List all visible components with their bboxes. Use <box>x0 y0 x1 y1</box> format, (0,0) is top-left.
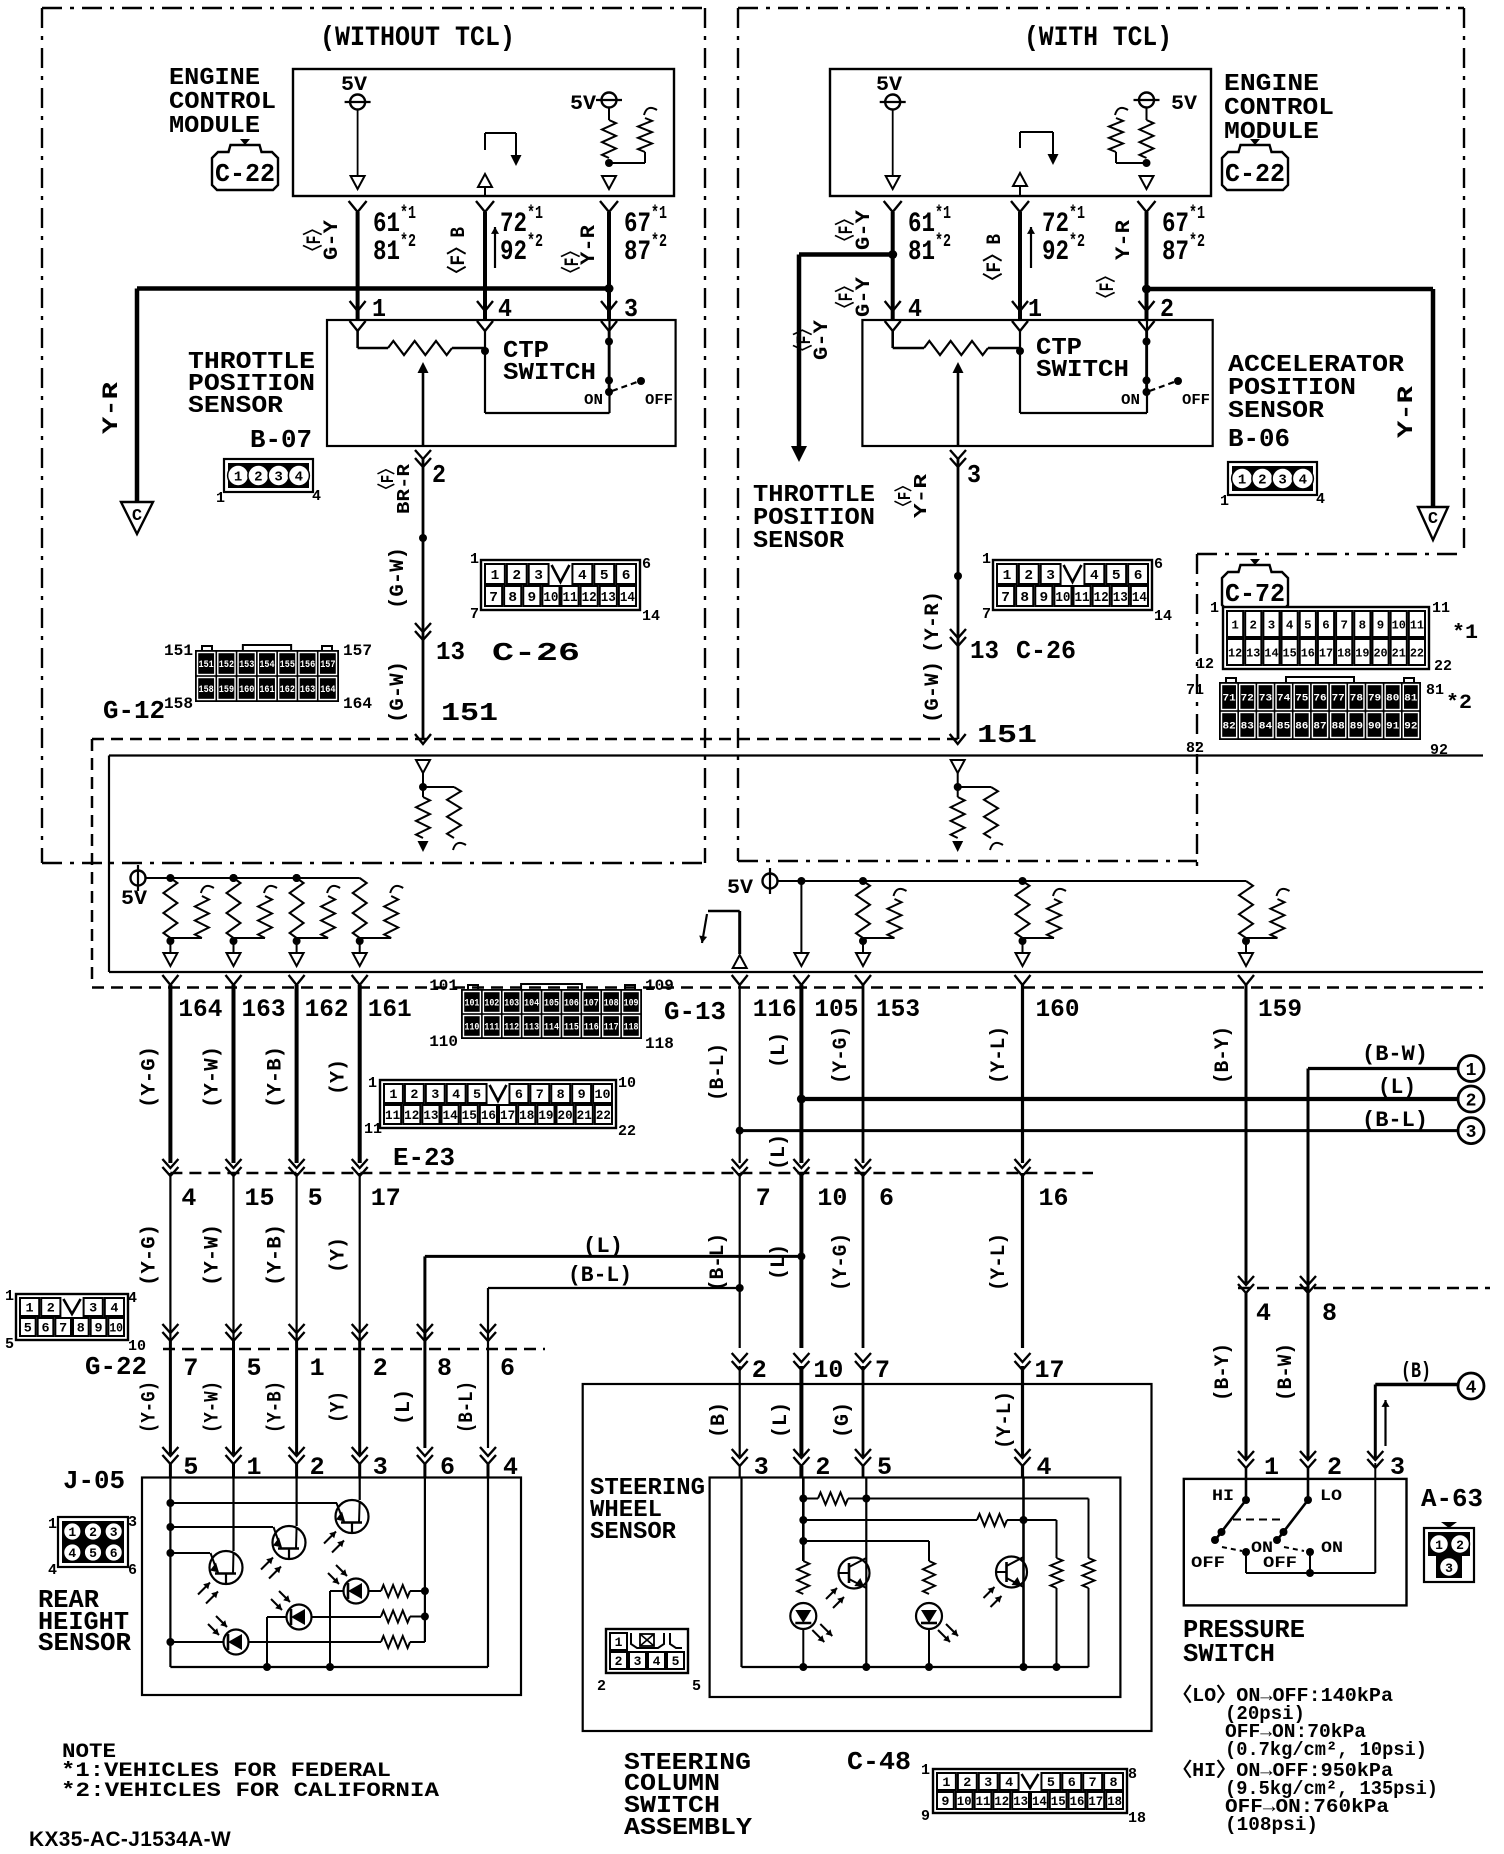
wire 162 into J05 <box>295 1464 298 1478</box>
svg-text:158: 158 <box>199 685 214 696</box>
wire tap2 lead <box>803 1519 977 1521</box>
junction w5 t2 <box>166 1523 174 1531</box>
svg-text:104: 104 <box>524 999 539 1010</box>
svg-text:SWITCH: SWITCH <box>1183 1639 1275 1669</box>
wiper arrow <box>418 362 429 373</box>
junction ecm right <box>1143 159 1151 167</box>
junction G-Y branch <box>888 250 897 259</box>
wire tap t2 <box>170 1526 273 1528</box>
chevron pin4 inside <box>477 321 493 331</box>
svg-text:161: 161 <box>368 995 412 1024</box>
svg-text:84: 84 <box>1259 722 1272 733</box>
svg-text:4: 4 <box>48 1562 57 1579</box>
svg-text:5V: 5V <box>570 93 596 116</box>
junction L line at wire 105 <box>797 1095 806 1104</box>
svg-text:9: 9 <box>578 1087 586 1102</box>
junction pot right tcl <box>1016 347 1024 355</box>
wire sig116 vert <box>738 911 741 954</box>
svg-text:18: 18 <box>519 1108 534 1123</box>
svg-text:CONTROL: CONTROL <box>1224 95 1334 122</box>
svg-text:162: 162 <box>305 995 349 1024</box>
svg-text:6: 6 <box>1322 618 1329 632</box>
svg-text:3: 3 <box>128 1514 137 1531</box>
contact lo on <box>1306 1548 1314 1556</box>
wire 5v2 down <box>608 108 610 121</box>
svg-text:A-63: A-63 <box>1421 1484 1483 1514</box>
svg-text:7: 7 <box>489 590 498 606</box>
svg-text:*1: *1 <box>527 204 543 224</box>
phototransistor Q2 steering light arrow2 <box>991 1596 1002 1607</box>
svg-text:5: 5 <box>5 1336 14 1353</box>
resistor potentiometer tcl <box>924 341 988 355</box>
resistor network tcl 1022.5 second <box>1047 899 1061 938</box>
photodiode D2 rear height light arrows <box>279 1591 290 1602</box>
svg-text:6: 6 <box>622 568 631 584</box>
wire L to circ2 <box>801 1097 1459 1101</box>
svg-text:3: 3 <box>984 1775 992 1790</box>
svg-text:21: 21 <box>577 1108 592 1123</box>
wire signal72 stub <box>484 133 486 150</box>
svg-text:1: 1 <box>1264 1453 1279 1482</box>
LED D1 steering <box>790 1603 816 1629</box>
wire 164 mid <box>169 1173 171 1340</box>
resistor RS5 steering <box>797 1561 809 1594</box>
junction resnet left 3 <box>356 937 364 945</box>
svg-text:74: 74 <box>1277 694 1290 705</box>
chevron c26 crossing tcl <box>950 629 966 638</box>
svg-text:5: 5 <box>247 1354 262 1383</box>
svg-text:3: 3 <box>1466 1123 1477 1143</box>
wire 161 low <box>358 1341 361 1454</box>
arrow into pin61 <box>351 176 365 189</box>
svg-text:19: 19 <box>538 1108 553 1123</box>
svg-text:7: 7 <box>536 1087 544 1102</box>
svg-text:1: 1 <box>1210 600 1219 617</box>
wire 105 inside <box>800 881 802 953</box>
wire 151 left inside <box>422 773 424 797</box>
svg-text:118: 118 <box>624 1023 639 1034</box>
svg-text:C: C <box>1428 510 1438 529</box>
svg-text:(G): (G) <box>832 1402 855 1438</box>
phototransistor Q2 steering light arrows <box>984 1587 995 1598</box>
wire 160 mid <box>1021 1173 1024 1348</box>
svg-text:8: 8 <box>1359 618 1366 632</box>
svg-text:12: 12 <box>1094 590 1109 606</box>
wire 105 upper <box>799 985 803 1163</box>
svg-text:1: 1 <box>491 568 500 584</box>
arrow sig116 <box>702 914 707 943</box>
transistor Q3 rear height light arrow2 <box>206 1592 218 1604</box>
triangle 151 tcl <box>951 760 965 773</box>
svg-text:Y-R: Y-R <box>912 474 932 518</box>
switch lever lo <box>1278 1500 1308 1539</box>
svg-text:80: 80 <box>1386 694 1399 705</box>
svg-text:1: 1 <box>1231 618 1238 632</box>
svg-text:22: 22 <box>1410 646 1424 660</box>
wire 61 pin down <box>356 212 360 320</box>
wire 151 tcl branch <box>958 786 991 788</box>
wire sig116 horiz <box>708 910 740 913</box>
resistor ecm right R1 <box>1140 120 1154 158</box>
svg-text:11: 11 <box>563 590 578 606</box>
contact OFF left <box>637 377 645 385</box>
chevron C-48 105 <box>793 1353 809 1362</box>
resistor network left 2 hook <box>327 886 340 893</box>
junction ctp lower <box>605 376 613 384</box>
svg-text:8: 8 <box>437 1354 452 1383</box>
svg-text:(G-W): (G-W) <box>387 661 410 723</box>
svg-text:(Y-G): (Y-G) <box>830 1026 853 1084</box>
wire pin2 down tcl <box>1145 331 1148 392</box>
resistor network left 3 main <box>353 878 367 938</box>
svg-text:16: 16 <box>1070 1794 1085 1809</box>
wire L into J05 <box>423 1464 426 1478</box>
junction rail tcl a <box>797 877 805 885</box>
triangle output left 1 <box>227 953 241 966</box>
connector C-22 left <box>212 139 278 190</box>
svg-text:8: 8 <box>1110 1775 1118 1790</box>
photodiode D1 rear height light arrow2 <box>208 1624 219 1635</box>
svg-text:(G-W): (G-W) <box>387 547 410 609</box>
svg-text:4: 4 <box>1005 1775 1013 1790</box>
svg-text:78: 78 <box>1350 694 1363 705</box>
wire led3 right <box>368 1590 381 1592</box>
svg-text:8: 8 <box>557 1087 565 1102</box>
wire tap1 down <box>1088 1499 1090 1559</box>
svg-text:21: 21 <box>1392 646 1406 660</box>
op steering wheel sensor box <box>710 1478 1121 1698</box>
wire resnet tcl 1246 down <box>1245 941 1247 952</box>
svg-text:Y-R: Y-R <box>1113 220 1136 260</box>
chevron A-63 2 <box>1300 1451 1316 1460</box>
pivot hi <box>1218 1528 1226 1536</box>
op steering column switch assembly box <box>583 1384 1152 1731</box>
svg-text:2: 2 <box>1466 1092 1477 1112</box>
5V supply ecm right <box>885 95 900 110</box>
resistor network left 2 main <box>290 878 304 938</box>
wire j05 bottom rail <box>170 1666 488 1668</box>
connector G-12 <box>196 645 338 701</box>
connector C-72 symbol <box>1222 559 1288 610</box>
svg-text:109: 109 <box>645 977 674 995</box>
junction YR tcl <box>1142 285 1151 294</box>
svg-text:11: 11 <box>1432 600 1450 617</box>
junction B-L line at wire 116 <box>736 1127 744 1135</box>
junction led929 rail <box>925 1663 933 1671</box>
svg-text:77: 77 <box>1332 694 1345 705</box>
wire resnet tcl 1022.5 down <box>1022 941 1024 952</box>
svg-text:83: 83 <box>1241 722 1254 733</box>
svg-text:5: 5 <box>1047 1775 1055 1790</box>
svg-text:(Y-G): (Y-G) <box>138 1046 161 1108</box>
svg-text:6: 6 <box>515 1087 523 1102</box>
junction s2 tap3 <box>799 1537 807 1545</box>
resistor network left 1 main <box>227 878 241 938</box>
dashed G-22 harness line <box>163 1348 545 1351</box>
svg-text:164: 164 <box>320 685 335 696</box>
5V rail tcl supply <box>763 874 778 889</box>
dashed harness G-13 line <box>92 986 1483 989</box>
svg-text:22: 22 <box>596 1108 611 1123</box>
terminal G-13 wire 116 <box>732 975 748 985</box>
wire 161 mid <box>359 1173 361 1340</box>
svg-text:5: 5 <box>89 1546 97 1561</box>
svg-text:106: 106 <box>564 999 579 1010</box>
signal arrow pin3 <box>1384 1400 1386 1446</box>
svg-text:6: 6 <box>1154 556 1163 573</box>
svg-text:112: 112 <box>504 1023 519 1034</box>
svg-text:1: 1 <box>368 1075 377 1092</box>
dashed harness A-63 line <box>1238 1287 1490 1290</box>
wire 162 upper <box>295 985 299 1163</box>
wire 164 low <box>169 1341 172 1454</box>
svg-text:1: 1 <box>48 1516 57 1533</box>
svg-text:B-06: B-06 <box>1228 424 1290 454</box>
svg-text:108: 108 <box>604 999 619 1010</box>
border WITHOUT TCL bottom <box>42 862 705 864</box>
svg-text:17: 17 <box>1088 1794 1103 1809</box>
svg-text:11: 11 <box>385 1108 400 1123</box>
svg-text:13: 13 <box>601 590 616 606</box>
svg-text:1: 1 <box>982 551 991 568</box>
chevron E-23 163 <box>226 1159 242 1168</box>
wire Y-R branch right <box>1147 287 1434 292</box>
svg-text:(Y): (Y) <box>328 1237 351 1273</box>
svg-text:1: 1 <box>1435 1538 1443 1553</box>
svg-text:C-22: C-22 <box>1225 159 1285 189</box>
junction RS3 rail <box>1053 1663 1061 1671</box>
wire R1 to w6 <box>410 1590 425 1592</box>
svg-text:(B-L): (B-L) <box>1362 1108 1428 1133</box>
svg-text:11: 11 <box>976 1794 991 1809</box>
svg-text:11: 11 <box>1075 590 1090 606</box>
svg-text:3: 3 <box>1268 618 1275 632</box>
wire 161 into J05 <box>358 1464 361 1478</box>
svg-text:5: 5 <box>308 1184 323 1213</box>
svg-text:ASSEMBLY: ASSEMBLY <box>624 1815 753 1842</box>
svg-text:SENSOR: SENSOR <box>753 528 845 555</box>
svg-text:14: 14 <box>620 590 635 606</box>
transistor Q2 rear height light arrow2 <box>269 1567 281 1579</box>
svg-text:5V: 5V <box>876 74 902 97</box>
wire tap t3 <box>170 1552 210 1554</box>
svg-text:BR-R: BR-R <box>395 464 415 514</box>
wire signal72 stub right <box>1019 132 1021 148</box>
svg-text:163: 163 <box>300 685 315 696</box>
svg-text:(Y-G): (Y-G) <box>138 1381 161 1433</box>
5V rail left <box>146 877 360 879</box>
wire resnet tcl 863 join <box>863 937 895 939</box>
wire s5 vert <box>865 1478 867 1668</box>
svg-text:109: 109 <box>624 999 639 1010</box>
svg-text:22: 22 <box>1434 658 1452 675</box>
svg-text:14: 14 <box>1032 1794 1047 1809</box>
svg-text:2: 2 <box>1456 1538 1464 1553</box>
wire signal72 horiz <box>485 132 516 134</box>
svg-text:86: 86 <box>1295 722 1308 733</box>
svg-text:G-Y: G-Y <box>853 277 876 317</box>
connector chevron pin3 top <box>601 301 617 311</box>
svg-text:1: 1 <box>389 1087 397 1102</box>
wire 161 upper <box>358 985 362 1163</box>
svg-text:(B-Y): (B-Y) <box>1212 1343 1235 1401</box>
svg-text:8: 8 <box>1322 1299 1337 1328</box>
wire 72 pin down tcl <box>1018 212 1022 320</box>
junction resnet tcl 863 <box>859 937 867 945</box>
svg-text:(Y-G): (Y-G) <box>138 1224 161 1286</box>
wire tap t1 <box>170 1502 337 1504</box>
svg-text:G-22: G-22 <box>85 1352 147 1382</box>
wire 5v to pin61 right <box>892 110 894 178</box>
svg-text:87: 87 <box>1162 237 1189 268</box>
chevron pin1 top tcl <box>1012 301 1028 311</box>
svg-text:72: 72 <box>1042 209 1069 240</box>
svg-text:G-Y: G-Y <box>321 220 344 260</box>
svg-text:(L): (L) <box>768 1244 791 1280</box>
wire 116 mid <box>739 1173 741 1348</box>
chevron sensor 105 <box>793 1449 809 1458</box>
svg-text:3: 3 <box>534 568 543 584</box>
svg-text:6: 6 <box>642 556 651 573</box>
junction ctp upper tcl <box>1143 338 1151 346</box>
wire res lead left <box>358 347 388 350</box>
svg-text:3: 3 <box>1445 1561 1453 1576</box>
op CTP switch box bottom tcl <box>1020 412 1147 414</box>
chevron pin2 top tcl <box>1139 301 1155 311</box>
junction ctp lower tcl <box>1143 376 1151 384</box>
svg-text:1: 1 <box>310 1354 325 1383</box>
svg-text:ENGINE: ENGINE <box>169 65 260 92</box>
svg-text:160: 160 <box>239 685 254 696</box>
svg-text:(Y-L): (Y-L) <box>994 1391 1017 1449</box>
wire B-L to circ3 <box>740 1129 1459 1132</box>
wire resnet tcl 863 down <box>862 941 864 952</box>
transistor Q1 rear height light arrows <box>324 1532 336 1544</box>
resistor R3 rear height <box>381 1636 410 1648</box>
svg-text:16: 16 <box>1301 646 1315 660</box>
border WITHOUT TCL right <box>704 8 706 863</box>
arrow signal72 <box>511 155 522 166</box>
dashed mech link <box>1233 1519 1283 1521</box>
svg-text:ON: ON <box>1121 392 1140 409</box>
svg-text:*2: *2 <box>1446 692 1472 715</box>
wire led2 left <box>267 1616 286 1618</box>
chevron A-63 3 <box>1367 1451 1383 1460</box>
signal arrow 72 tcl <box>1030 227 1032 268</box>
wire s2 vert <box>802 1478 805 1562</box>
border WITHOUT TCL top <box>42 7 705 9</box>
5V rail left supply <box>131 871 146 886</box>
wire 153 mid <box>862 1173 865 1348</box>
wire Y-R right vertical <box>1431 289 1436 507</box>
svg-text:1: 1 <box>68 1525 76 1540</box>
svg-text:1: 1 <box>1220 493 1229 510</box>
5V supply ecm left <box>350 95 365 110</box>
switch lever ctp <box>612 382 637 391</box>
wire led2 right <box>312 1616 381 1618</box>
svg-text:72: 72 <box>500 209 527 240</box>
svg-text:4: 4 <box>128 1290 137 1307</box>
wire led2 down <box>266 1617 268 1667</box>
junction w5 t3 <box>166 1549 174 1557</box>
chevron E-23 153 <box>855 1159 871 1168</box>
svg-text:(Y): (Y) <box>328 1059 351 1095</box>
svg-text:CONTROL: CONTROL <box>169 89 276 116</box>
chevron sensor 153 <box>855 1449 871 1458</box>
svg-text:91: 91 <box>1386 722 1399 733</box>
wire tap3 lead <box>803 1540 929 1542</box>
terminal G-13 159 <box>1238 975 1254 985</box>
svg-text:15: 15 <box>245 1184 275 1213</box>
wire pin3 down <box>608 331 611 392</box>
svg-text:115: 115 <box>564 1023 579 1034</box>
svg-text:92: 92 <box>500 237 527 268</box>
terminal Y at ECM pin tcl <box>1011 201 1029 212</box>
svg-text:(B-Y): (B-Y) <box>1212 1026 1235 1084</box>
chevron C-48 160 <box>1015 1353 1031 1362</box>
svg-text:113: 113 <box>524 1023 539 1034</box>
resistor network tcl 1022.5 main <box>1016 881 1030 938</box>
wire L branch horizontal <box>425 1255 802 1258</box>
triangle output left 0 <box>163 953 177 966</box>
svg-text:116: 116 <box>753 995 797 1024</box>
wire resnet tcl 1246 join <box>1246 937 1278 939</box>
triangle 116 up <box>733 955 747 968</box>
junction s4 rail <box>1020 1663 1028 1671</box>
wire res lead right <box>452 347 485 350</box>
svg-text:7: 7 <box>1340 618 1347 632</box>
chevron E-23 116 <box>732 1159 748 1168</box>
svg-text:J-05: J-05 <box>63 1466 125 1496</box>
5V supply ecm left2 <box>602 93 617 108</box>
svg-text:101: 101 <box>429 977 458 995</box>
svg-text:156: 156 <box>300 660 315 671</box>
svg-text:6: 6 <box>41 1321 49 1336</box>
wire 159 into switch <box>1245 1468 1248 1500</box>
wire 151 branch right <box>423 786 454 788</box>
wire resnet left 2 joindown <box>327 937 329 939</box>
circled connector 4 <box>1458 1373 1484 1399</box>
svg-text:81: 81 <box>1426 682 1444 699</box>
contact OFF tcl <box>1174 377 1182 385</box>
svg-text:5: 5 <box>473 1087 481 1102</box>
svg-text:14: 14 <box>642 608 660 625</box>
svg-text:6: 6 <box>500 1354 515 1383</box>
wire led3 down <box>329 1591 331 1667</box>
svg-text:7: 7 <box>59 1321 67 1336</box>
svg-text:G-12: G-12 <box>103 696 165 726</box>
svg-text:5V: 5V <box>727 877 753 900</box>
svg-text:155: 155 <box>280 660 295 671</box>
triangle 151 left <box>416 760 430 773</box>
junction rail left c <box>293 874 301 882</box>
resistor RS1 steering <box>818 1493 848 1505</box>
svg-text:10: 10 <box>109 1321 123 1336</box>
svg-text:(Y-G): (Y-G) <box>830 1233 853 1291</box>
svg-text:*2: *2 <box>935 232 951 252</box>
svg-text:5: 5 <box>1304 618 1311 632</box>
wire resnet left 3 down <box>359 941 361 952</box>
svg-text:4: 4 <box>110 1301 118 1316</box>
connector C-22 right <box>1222 139 1288 190</box>
svg-text:(L): (L) <box>770 1402 793 1438</box>
wire B-L into J05 <box>487 1464 490 1478</box>
svg-text:118: 118 <box>645 1035 674 1053</box>
svg-text:103: 103 <box>504 999 519 1010</box>
svg-text:5V: 5V <box>121 888 147 911</box>
resistor 151 tcl B <box>984 787 998 838</box>
junction led2 rail <box>263 1663 271 1671</box>
